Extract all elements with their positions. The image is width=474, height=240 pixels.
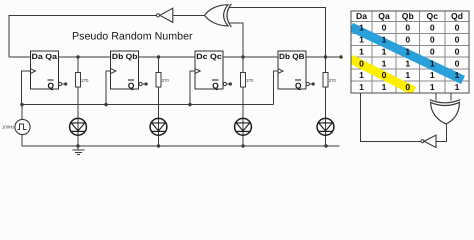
svg-text:270: 270 bbox=[329, 78, 337, 83]
svg-text:0: 0 bbox=[405, 82, 410, 92]
svg-text:1: 1 bbox=[455, 70, 460, 80]
svg-text:1: 1 bbox=[455, 82, 460, 92]
svg-text:1: 1 bbox=[359, 34, 364, 44]
svg-text:0: 0 bbox=[359, 58, 364, 68]
svg-text:Qb: Qb bbox=[402, 11, 414, 21]
svg-text:0: 0 bbox=[430, 23, 435, 33]
svg-text:0: 0 bbox=[405, 34, 410, 44]
svg-text:Q: Q bbox=[128, 80, 135, 90]
svg-text:Pseudo Random Number: Pseudo Random Number bbox=[72, 31, 193, 43]
svg-text:1: 1 bbox=[359, 23, 364, 33]
svg-text:1: 1 bbox=[382, 34, 387, 44]
svg-text:270: 270 bbox=[246, 78, 254, 83]
svg-text:Db QB: Db QB bbox=[279, 52, 305, 61]
svg-text:1: 1 bbox=[382, 58, 387, 68]
svg-text:0: 0 bbox=[455, 46, 460, 56]
svg-text:Q: Q bbox=[212, 80, 219, 90]
svg-text:0: 0 bbox=[405, 23, 410, 33]
svg-text:0: 0 bbox=[382, 70, 387, 80]
svg-text:Qa: Qa bbox=[378, 11, 390, 21]
svg-text:Da: Da bbox=[356, 11, 367, 21]
svg-text:1: 1 bbox=[430, 58, 435, 68]
svg-text:1: 1 bbox=[382, 46, 387, 56]
svg-text:Db Qb: Db Qb bbox=[112, 52, 138, 61]
svg-text:0: 0 bbox=[455, 58, 460, 68]
svg-text:1: 1 bbox=[359, 82, 364, 92]
svg-text:Qd: Qd bbox=[451, 11, 463, 21]
svg-text:Qc: Qc bbox=[427, 11, 439, 21]
svg-text:0: 0 bbox=[430, 34, 435, 44]
svg-text:100Hz: 100Hz bbox=[2, 125, 14, 130]
svg-text:0: 0 bbox=[455, 23, 460, 33]
svg-text:1: 1 bbox=[382, 82, 387, 92]
svg-text:270: 270 bbox=[81, 78, 89, 83]
svg-text:1: 1 bbox=[430, 70, 435, 80]
svg-text:0: 0 bbox=[382, 23, 387, 33]
svg-text:Q: Q bbox=[295, 80, 302, 90]
svg-text:1: 1 bbox=[359, 46, 364, 56]
svg-text:Da Qa: Da Qa bbox=[32, 52, 58, 61]
svg-text:270: 270 bbox=[162, 78, 170, 83]
svg-text:1: 1 bbox=[405, 58, 410, 68]
svg-text:0: 0 bbox=[430, 46, 435, 56]
svg-text:1: 1 bbox=[359, 70, 364, 80]
svg-text:Q: Q bbox=[48, 80, 55, 90]
svg-text:1: 1 bbox=[430, 82, 435, 92]
svg-text:1: 1 bbox=[405, 46, 410, 56]
svg-text:1: 1 bbox=[405, 70, 410, 80]
svg-text:Dc Qc: Dc Qc bbox=[196, 52, 222, 61]
svg-text:0: 0 bbox=[455, 34, 460, 44]
